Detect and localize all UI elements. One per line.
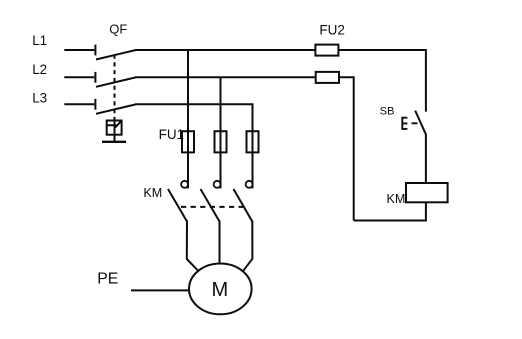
wire coil to return <box>354 202 426 220</box>
breaker QF release box <box>107 121 122 135</box>
breaker QF pole3 blade <box>96 104 136 114</box>
svg-text:M: M <box>211 279 228 301</box>
svg-text:L1: L1 <box>32 33 47 48</box>
wire drop phase1 <box>187 50 189 188</box>
contactor KM contact3 blade <box>234 189 253 222</box>
wire SB to coil <box>425 134 427 183</box>
wire drop phase3 <box>252 104 254 188</box>
wire contact3 to motor <box>243 221 252 271</box>
contactor KM contact1 arc <box>181 181 188 188</box>
pushbutton SB actuator link dash <box>412 122 418 124</box>
svg-text:KM: KM <box>387 192 406 206</box>
breaker QF pole1 blade <box>96 50 136 60</box>
wire PE to motor <box>131 289 190 291</box>
svg-text:QF: QF <box>109 21 127 36</box>
contactor KM contact3 arc <box>246 181 253 188</box>
fuse FU1-3 <box>247 131 259 152</box>
wire FU2-1 to SB <box>338 50 426 112</box>
breaker QF release stem <box>114 121 116 142</box>
wire L2 supply stub <box>64 76 94 78</box>
contactor KM contact2 blade <box>201 189 220 222</box>
wire contact2 to motor <box>219 221 221 265</box>
fuse FU1-2 <box>215 131 227 152</box>
contactor coil KM <box>406 183 448 202</box>
contactor KM contact2 arc <box>214 181 221 188</box>
breaker QF release box detail <box>107 121 122 128</box>
fuse FU2-1 <box>315 45 338 56</box>
fuse FU1-1 <box>182 131 194 152</box>
pushbutton SB actuator <box>402 118 407 129</box>
svg-text:L3: L3 <box>32 91 47 106</box>
svg-text:KM: KM <box>143 186 162 200</box>
svg-text:SB: SB <box>380 105 395 117</box>
contactor KM contact1 blade <box>168 189 187 222</box>
wire contact1 to motor <box>187 221 198 271</box>
fuse FU2-2 <box>316 72 339 83</box>
wire drop phase2 <box>220 77 222 188</box>
breaker QF bottom bar <box>102 141 126 143</box>
breaker QF pole2 blade <box>96 77 136 87</box>
svg-text:FU2: FU2 <box>319 23 345 38</box>
wire L1 bus to FU2 <box>135 49 315 51</box>
wire L3 bus to drop3 <box>135 104 253 131</box>
contactor KM linkage dashed line <box>181 206 245 208</box>
wire L1 supply stub <box>64 49 94 51</box>
breaker QF pole2 fixed contact tick <box>94 72 96 83</box>
breaker QF pole3 fixed contact tick <box>94 99 96 110</box>
wire L2 bus to FU2 <box>135 76 316 78</box>
breaker QF linkage dashed line <box>114 55 116 121</box>
svg-text:PE: PE <box>97 270 118 287</box>
breaker QF pole1 fixed contact tick <box>94 45 96 56</box>
svg-text:L2: L2 <box>32 62 47 77</box>
motor M body <box>189 264 252 315</box>
pushbutton SB blade <box>415 111 426 135</box>
svg-text:FU1: FU1 <box>159 127 185 142</box>
wire L3 supply stub <box>64 103 94 105</box>
wire FU2-2 return branch <box>339 77 354 220</box>
